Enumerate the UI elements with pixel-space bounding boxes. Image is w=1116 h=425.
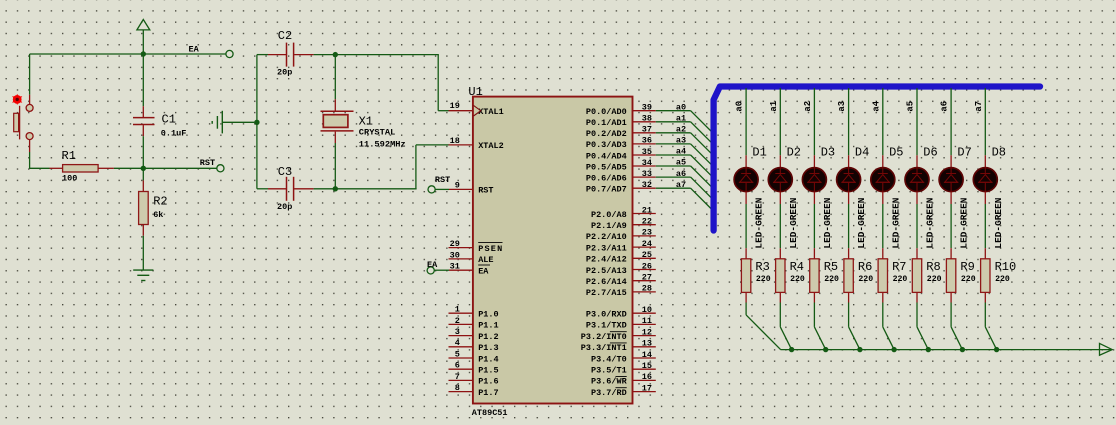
bus (blue) [714, 87, 1040, 231]
svg-text:ALE: ALE [478, 255, 493, 265]
svg-text:11: 11 [642, 316, 652, 326]
svg-text:15: 15 [642, 361, 652, 371]
svg-text:220: 220 [790, 275, 805, 284]
svg-text:C2: C2 [278, 29, 292, 43]
svg-text:a3: a3 [837, 101, 847, 112]
svg-text:21: 21 [642, 205, 652, 215]
svg-text:a5: a5 [676, 158, 686, 168]
svg-text:18: 18 [450, 136, 460, 146]
svg-text:23: 23 [642, 228, 652, 238]
wire R10 to rail [984, 303, 986, 327]
svg-text:220: 220 [961, 275, 976, 284]
svg-text:a2: a2 [803, 101, 813, 112]
pin 29 PSEN [449, 247, 473, 249]
wire bus to LED D8 [984, 88, 986, 155]
svg-text:13: 13 [642, 339, 652, 349]
svg-text:D1: D1 [752, 146, 766, 160]
svg-text:P3.0/RXD: P3.0/RXD [586, 310, 627, 320]
resistor R6 [844, 248, 853, 302]
svg-text:C1: C1 [162, 113, 176, 127]
wire net a6 from pin 33 to bus [656, 176, 691, 178]
svg-text:P3.6/WR: P3.6/WR [591, 377, 628, 387]
pin 27 P2.6/A14 [633, 280, 656, 282]
svg-text:LED-GREEN: LED-GREEN [926, 198, 936, 249]
node junction rail 7 [994, 347, 999, 352]
pin 8 P1.7 [449, 391, 473, 393]
svg-text:RST: RST [200, 158, 215, 168]
svg-text:34: 34 [642, 158, 652, 168]
pin 26 P2.5/A13 [633, 269, 656, 271]
terminal EA top [226, 50, 233, 57]
svg-text:22: 22 [642, 217, 652, 227]
wire C3 to XTAL2 [314, 188, 336, 190]
terminal RST right [428, 186, 435, 193]
wire net a3 from pin 36 to bus [656, 143, 691, 145]
svg-text:a6: a6 [940, 101, 950, 112]
LED D4 [837, 155, 861, 204]
svg-text:39: 39 [642, 103, 652, 113]
svg-text:P2.1/A9: P2.1/A9 [591, 221, 627, 231]
svg-text:RST: RST [435, 175, 450, 185]
svg-text:a1: a1 [769, 100, 779, 111]
svg-text:16: 16 [642, 372, 652, 382]
svg-text:6: 6 [455, 361, 460, 371]
pin 32 P0.7/AD7 [633, 187, 656, 189]
LED D2 [768, 155, 792, 204]
svg-text:12: 12 [642, 327, 652, 337]
op-amp U1 AT89C51 microcontroller body [473, 97, 633, 404]
svg-text:RST: RST [478, 186, 493, 196]
resistor R8 [912, 248, 921, 302]
svg-text:P1.6: P1.6 [478, 377, 498, 387]
button S1 (push button) [14, 95, 33, 152]
pin 22 P2.1/A9 [633, 224, 656, 226]
svg-text:EA: EA [427, 260, 438, 270]
svg-text:P0.1/AD1: P0.1/AD1 [586, 118, 627, 128]
svg-text:P0.3/AD3: P0.3/AD3 [586, 140, 627, 150]
svg-text:36: 36 [642, 136, 652, 146]
resistor R3 [741, 248, 750, 302]
svg-text:LED-GREEN: LED-GREEN [891, 198, 901, 249]
svg-text:P1.3: P1.3 [478, 343, 498, 353]
svg-text:10: 10 [642, 305, 652, 315]
svg-text:37: 37 [642, 125, 652, 135]
svg-text:20p: 20p [277, 68, 292, 78]
wire bus to LED D2 [779, 88, 781, 155]
svg-text:35: 35 [642, 147, 652, 157]
node junction crystal top [333, 52, 338, 57]
svg-text:P2.4/A12: P2.4/A12 [586, 255, 627, 265]
button marker red dot [12, 94, 22, 105]
pin 38 P0.1/AD1 [633, 121, 656, 123]
resistor R5 [810, 248, 819, 302]
wire bus to LED D7 [950, 88, 952, 155]
svg-text:X1: X1 [359, 114, 373, 128]
pin 35 P0.4/AD4 [633, 154, 656, 156]
svg-text:R5: R5 [824, 260, 838, 274]
svg-text:P3.5/T1: P3.5/T1 [591, 366, 627, 376]
node junction rail 5 [926, 347, 931, 352]
svg-text:2: 2 [455, 316, 460, 326]
svg-text:CRYSTAL: CRYSTAL [359, 128, 396, 138]
svg-text:LED-GREEN: LED-GREEN [960, 198, 970, 249]
node junction rail 2 [823, 347, 828, 352]
wire LED D6 to R8 [916, 204, 918, 248]
pin 15 P3.5/T1 [633, 368, 656, 370]
svg-text:P1.2: P1.2 [478, 332, 498, 342]
svg-text:28: 28 [642, 284, 652, 294]
wire LED D8 to R10 [984, 204, 986, 248]
resistor R10 [981, 248, 990, 302]
svg-text:U1: U1 [468, 85, 482, 99]
svg-text:LED-GREEN: LED-GREEN [823, 198, 833, 249]
svg-text:P2.6/A14: P2.6/A14 [586, 277, 627, 287]
svg-text:LED-GREEN: LED-GREEN [789, 198, 799, 249]
svg-text:31: 31 [450, 262, 460, 272]
wire R9 to rail [950, 303, 952, 327]
node junction ground tap [254, 120, 259, 125]
wire C2 to XTAL1 [314, 54, 439, 56]
svg-text:P3.2/INT0: P3.2/INT0 [581, 332, 627, 342]
svg-text:220: 220 [858, 275, 873, 284]
svg-text:11.592MHz: 11.592MHz [359, 139, 406, 149]
wire bottom rail [781, 349, 1112, 351]
wire net a1 from pin 38 to bus [656, 121, 691, 123]
svg-text:LED-GREEN: LED-GREEN [857, 198, 867, 249]
svg-text:17: 17 [642, 383, 652, 393]
svg-text:P2.5/A13: P2.5/A13 [586, 266, 627, 276]
wire R5 to rail [813, 303, 815, 327]
svg-text:a0: a0 [735, 101, 745, 112]
node junction rail 1 [789, 347, 794, 352]
svg-text:P1.5: P1.5 [478, 366, 498, 376]
svg-text:220: 220 [824, 275, 839, 284]
svg-text:R7: R7 [892, 260, 906, 274]
pin 9 RST [449, 188, 473, 190]
node junction rail 6 [960, 347, 965, 352]
svg-text:D4: D4 [855, 146, 869, 160]
svg-text:P0.2/AD2: P0.2/AD2 [586, 129, 627, 139]
pin 14 P3.4/T0 [633, 357, 656, 359]
svg-text:a7: a7 [676, 180, 686, 190]
svg-text:D2: D2 [787, 146, 801, 160]
svg-text:P0.5/AD5: P0.5/AD5 [586, 162, 627, 172]
node junction rail 3 [857, 347, 862, 352]
wire LED D4 to R6 [848, 204, 850, 248]
svg-text:4: 4 [455, 338, 460, 348]
wire R6 to rail [848, 303, 850, 327]
svg-text:a6: a6 [676, 169, 686, 179]
pin 30 ALE [449, 258, 473, 260]
wire bus to LED D5 [882, 88, 884, 155]
pin 17 P3.7/RD [633, 391, 656, 393]
svg-text:EA: EA [189, 45, 200, 55]
crystal X1 [321, 55, 354, 189]
svg-text:LED-GREEN: LED-GREEN [755, 198, 765, 249]
svg-text:P1.1: P1.1 [478, 321, 498, 331]
svg-text:33: 33 [642, 169, 652, 179]
svg-text:220: 220 [995, 275, 1010, 284]
svg-text:a7: a7 [974, 101, 984, 112]
svg-text:AT89C51: AT89C51 [472, 408, 508, 418]
svg-text:9: 9 [455, 181, 460, 191]
pin 23 P2.2/A10 [633, 235, 656, 237]
wire LED D1 to R3 [745, 204, 747, 248]
pin 39 P0.0/AD0 [633, 110, 656, 112]
wire net a2 from pin 37 to bus [656, 132, 691, 134]
svg-text:R3: R3 [755, 260, 769, 274]
svg-text:a2: a2 [676, 125, 686, 135]
svg-text:P3.1/TXD: P3.1/TXD [586, 321, 627, 331]
svg-text:220: 220 [927, 275, 942, 284]
svg-text:R8: R8 [926, 260, 940, 274]
svg-text:P1.4: P1.4 [478, 354, 498, 364]
svg-text:P1.0: P1.0 [478, 310, 498, 320]
capacitor C3 [257, 177, 314, 201]
terminal EA bottom [427, 267, 434, 274]
wire R4 to rail [779, 303, 781, 327]
svg-text:R9: R9 [960, 260, 974, 274]
pin 31 EA [449, 269, 473, 271]
wire net a5 from pin 34 to bus [656, 165, 691, 167]
pin 25 P2.4/A12 [633, 257, 656, 259]
pin 3 P1.2 [449, 335, 473, 337]
wire C2/C3 left vertical [256, 55, 258, 189]
svg-text:LED-GREEN: LED-GREEN [994, 198, 1004, 249]
svg-text:P0.7/AD7: P0.7/AD7 [586, 185, 627, 195]
pin 11 P3.1/TXD [633, 323, 656, 325]
ground symbol rotated (crystal) [212, 111, 254, 134]
svg-text:P3.4/T0: P3.4/T0 [591, 354, 627, 364]
pin 18 XTAL2 [449, 144, 473, 146]
svg-text:27: 27 [642, 273, 652, 283]
pin 6 P1.5 [449, 368, 473, 370]
pin 19 XTAL1 [449, 110, 473, 112]
svg-text:P3.3/INT1: P3.3/INT1 [581, 343, 627, 353]
pin 33 P0.6/AD6 [633, 176, 656, 178]
svg-text:220: 220 [756, 275, 771, 284]
svg-text:P1.7: P1.7 [478, 388, 498, 398]
svg-text:100: 100 [62, 174, 77, 184]
svg-text:P2.0/A8: P2.0/A8 [591, 210, 627, 220]
power symbol VCC [137, 20, 150, 30]
svg-text:a0: a0 [676, 102, 686, 112]
pin 16 P3.6/WR [633, 379, 656, 381]
svg-text:38: 38 [642, 114, 652, 124]
svg-text:PSEN: PSEN [478, 244, 502, 254]
wire bus to LED D1 [745, 88, 747, 155]
wire LED D3 to R5 [813, 204, 815, 248]
LED D8 [973, 155, 997, 204]
svg-text:26: 26 [642, 261, 652, 271]
svg-text:25: 25 [642, 250, 652, 260]
wire LED D5 to R7 [882, 204, 884, 248]
svg-text:19: 19 [450, 101, 460, 111]
svg-text:8: 8 [455, 383, 460, 393]
svg-text:D8: D8 [992, 146, 1006, 160]
svg-text:D7: D7 [957, 146, 971, 160]
svg-text:14: 14 [642, 350, 652, 360]
svg-text:P0.0/AD0: P0.0/AD0 [586, 107, 627, 117]
pin 36 P0.3/AD3 [633, 143, 656, 145]
svg-text:3: 3 [455, 327, 460, 337]
svg-text:29: 29 [450, 239, 460, 249]
svg-text:P3.7/RD: P3.7/RD [591, 388, 627, 398]
resistor R7 [878, 248, 887, 302]
capacitor C1 [133, 54, 155, 168]
pin 7 P1.6 [449, 379, 473, 381]
svg-text:R1: R1 [62, 149, 76, 163]
wire net a7 from pin 32 to bus [656, 187, 691, 189]
pin 24 P2.3/A11 [633, 246, 656, 248]
svg-text:a4: a4 [676, 147, 686, 157]
pin 4 P1.3 [449, 346, 473, 348]
wire R1 to node [114, 167, 143, 169]
wire bus to LED D4 [848, 88, 850, 155]
svg-text:P2.7/A15: P2.7/A15 [586, 288, 627, 298]
wire bus to LED D6 [916, 88, 918, 155]
svg-text:6k: 6k [153, 210, 163, 220]
wire net a4 from pin 35 to bus [656, 154, 691, 156]
wire RST terminal to pin 9 [435, 188, 449, 190]
svg-text:R10: R10 [995, 260, 1017, 274]
wire top-left vertical [29, 54, 31, 95]
LED D3 [802, 155, 826, 204]
wire R8 to rail [916, 303, 918, 327]
resistor R1 [50, 165, 114, 172]
svg-text:30: 30 [450, 250, 460, 260]
svg-text:0.1uF: 0.1uF [161, 128, 187, 138]
wire R7 to rail [882, 303, 884, 327]
svg-text:20p: 20p [277, 202, 292, 212]
resistor R9 [946, 248, 955, 302]
svg-text:P2.3/A11: P2.3/A11 [586, 243, 627, 253]
pin 34 P0.5/AD5 [633, 165, 656, 167]
pin 37 P0.2/AD2 [633, 132, 656, 134]
wire bus to LED D3 [813, 88, 815, 155]
LED D5 [871, 155, 895, 204]
svg-text:a3: a3 [676, 136, 686, 146]
node junction rail 4 [891, 347, 896, 352]
svg-text:D3: D3 [821, 146, 835, 160]
pin 12 P3.2/INT0 [633, 335, 656, 337]
svg-text:P0.6/AD6: P0.6/AD6 [586, 173, 627, 183]
wire LED D2 to R4 [779, 204, 781, 248]
svg-text:P0.4/AD4: P0.4/AD4 [586, 151, 627, 161]
svg-text:32: 32 [642, 180, 652, 190]
pin 1 P1.0 [449, 312, 473, 314]
svg-text:R2: R2 [153, 194, 167, 208]
svg-text:5: 5 [455, 349, 460, 359]
svg-text:P2.2/A10: P2.2/A10 [586, 232, 627, 242]
svg-text:D6: D6 [923, 146, 937, 160]
resistor R4 [776, 248, 785, 302]
svg-text:1: 1 [455, 305, 460, 315]
svg-text:C3: C3 [278, 165, 292, 179]
wire EA terminal to pin 31 [434, 269, 449, 271]
capacitor C2 [257, 43, 314, 67]
LED D1 [734, 155, 758, 204]
svg-text:24: 24 [642, 239, 652, 249]
wire top-left horizontal [30, 53, 226, 55]
node junction at power/EA wire [141, 51, 146, 56]
svg-text:XTAL2: XTAL2 [478, 141, 504, 151]
svg-text:R6: R6 [858, 260, 872, 274]
arrow rail end [1100, 343, 1113, 355]
resistor R2 [139, 168, 149, 270]
node junction crystal bottom [333, 186, 338, 191]
wire LED D7 to R9 [950, 204, 952, 248]
pin 10 P3.0/RXD [633, 312, 656, 314]
svg-text:7: 7 [455, 372, 460, 382]
wire net a0 from pin 39 to bus [656, 110, 691, 112]
svg-text:220: 220 [893, 275, 908, 284]
svg-text:D5: D5 [889, 146, 903, 160]
pin 28 P2.7/A15 [633, 291, 656, 293]
LED D7 [939, 155, 963, 204]
LED D6 [905, 155, 929, 204]
ground symbol below R2 [133, 270, 153, 280]
wire button to R1 row [29, 152, 31, 169]
pin 21 P2.0/A8 [633, 213, 656, 215]
pin 13 P3.3/INT1 [633, 346, 656, 348]
svg-text:a5: a5 [906, 101, 916, 112]
wire R3 to rail [745, 303, 747, 315]
node junction C1/R1/R2/RST [141, 166, 146, 171]
pin 2 P1.1 [449, 323, 473, 325]
svg-text:a1: a1 [676, 114, 686, 124]
svg-text:XTAL1: XTAL1 [478, 107, 504, 117]
pin 5 P1.4 [449, 357, 473, 359]
terminal RST left [217, 165, 224, 172]
svg-text:a4: a4 [871, 100, 881, 111]
svg-text:R4: R4 [790, 260, 804, 274]
svg-text:EA: EA [478, 266, 489, 276]
wire node to RST terminal [143, 167, 217, 169]
